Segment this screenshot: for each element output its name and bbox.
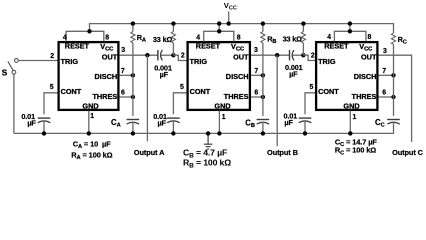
node U2 tie junction: [217, 29, 221, 33]
value label 0.01 uF (U2): [153, 112, 167, 128]
value label 33 kOhm (stage 2): [283, 34, 303, 43]
svg-text:3: 3: [383, 48, 387, 55]
value label CB = 4.7 uF: [183, 148, 227, 160]
svg-text:VCC: VCC: [231, 42, 244, 53]
wire U3 DISCH pin 7: [379, 74, 394, 76]
node U3 tie junction: [348, 29, 352, 33]
node U2 stub to rail: [217, 21, 221, 25]
value label 0.001 uF (coupling 2): [285, 63, 303, 78]
svg-text:TRIG: TRIG: [318, 57, 336, 66]
svg-text:µF: µF: [284, 118, 293, 127]
node U1 DISCH junction: [131, 73, 135, 77]
resistor RB: [261, 24, 265, 116]
svg-text:GND: GND: [214, 102, 230, 111]
svg-text:CONT: CONT: [318, 87, 339, 96]
U1 pin 7 label: [121, 68, 125, 75]
U2 label DISCH: [226, 72, 249, 81]
resistor 33k stage 1: [171, 24, 175, 56]
wire U2 tie stub to VCC rail: [218, 23, 220, 31]
svg-text:2: 2: [50, 53, 54, 60]
svg-text:7: 7: [254, 68, 258, 75]
U1 label THRES: [92, 92, 117, 101]
svg-text:6: 6: [121, 90, 125, 97]
svg-text:CA: CA: [111, 118, 121, 129]
svg-text:5: 5: [50, 84, 54, 91]
wire U1 reset-vcc tie (pins 4-8): [66, 31, 104, 41]
wire VCC supply stub: [228, 11, 230, 23]
value label 33 kOhm (stage 1): [153, 35, 173, 44]
resistor RA: [131, 24, 135, 116]
node bypass cap 3 to ground: [303, 131, 307, 135]
svg-text:µF: µF: [27, 119, 36, 128]
node U1 GND junction: [87, 131, 91, 135]
U3 pin 1 label: [353, 114, 357, 121]
svg-text:µF: µF: [158, 119, 167, 128]
svg-text:7: 7: [121, 68, 125, 75]
svg-text:GND: GND: [343, 102, 359, 111]
U1 label OUT: [102, 53, 118, 62]
U2 pin 5 label: [180, 84, 184, 91]
svg-text:CB: CB: [245, 118, 255, 129]
U2 pin 8 label: [237, 34, 241, 41]
node ground symbol junction: [206, 131, 210, 135]
svg-text:THRES: THRES: [92, 92, 117, 101]
U1 pin 3 label: [121, 47, 125, 54]
svg-text:CONT: CONT: [61, 87, 82, 96]
U2 pin 4 label: [196, 34, 200, 41]
capacitor CA timing: [127, 120, 140, 134]
svg-text:RA: RA: [137, 33, 146, 44]
node CA to ground rail: [131, 131, 135, 135]
wire U1 DISCH pin 7: [120, 74, 133, 76]
svg-text:RESET: RESET: [65, 42, 90, 51]
wire U1 GND pin 1 to rail: [88, 111, 90, 134]
U1 label CONT: [61, 87, 82, 96]
svg-text:33 kΩ: 33 kΩ: [153, 35, 173, 44]
node U2 DISCH junction: [261, 73, 265, 77]
capacitor 0.01uF bypass (U1): [38, 118, 51, 133]
svg-text:6: 6: [382, 90, 386, 97]
svg-text:VCC: VCC: [359, 42, 372, 53]
node 33k stage2 to rail: [301, 21, 305, 25]
svg-text:CC: CC: [375, 118, 385, 129]
U3 label THRES: [352, 92, 377, 101]
value label 0.01 uF (U1): [21, 112, 36, 128]
svg-text:2: 2: [181, 53, 185, 60]
U2 pin 3 label: [254, 47, 258, 54]
wire U3 OUT pin 3 to output C: [379, 55, 412, 142]
U2 pin 2 label: [181, 53, 185, 60]
wire U2 THRES pin 6: [251, 96, 263, 98]
switch S: [8, 59, 18, 75]
U2 label VCC: [231, 42, 244, 53]
U2 label CONT: [190, 87, 211, 96]
U2 pin 6 label: [254, 90, 258, 97]
svg-text:THRES: THRES: [352, 92, 377, 101]
svg-text:RA = 100 kΩ: RA = 100 kΩ: [71, 150, 112, 161]
svg-text:VCC: VCC: [100, 42, 113, 53]
U1 pin 8 label: [105, 34, 109, 41]
node coupling 2 to TRIG of U3: [301, 53, 305, 57]
U3 label OUT: [361, 53, 377, 62]
timer IC U3 (555) box: [316, 42, 377, 110]
U3 pin 5 label: [310, 84, 314, 91]
svg-text:8: 8: [237, 34, 241, 41]
capacitor CA label: [111, 118, 121, 129]
wire U1 OUT pin 3: [120, 54, 158, 56]
value label CA = 10 uF: [73, 139, 111, 150]
label Output A: [134, 148, 165, 157]
wire U2 CONT pin 5 to bypass cap: [173, 93, 186, 114]
svg-text:DISCH: DISCH: [226, 72, 249, 81]
value label 0.001 uF (coupling 1): [154, 63, 172, 78]
node U3 stub to rail: [348, 21, 352, 25]
wire U2 GND pin 1 to rail: [218, 111, 220, 134]
resistor RC: [391, 23, 395, 116]
U2 pin 1 label: [222, 114, 226, 121]
resistor 33k stage 2: [301, 24, 305, 56]
wire switch to TRIG pin 2 of U1: [18, 60, 57, 62]
node coupling 1 to TRIG of U2: [171, 53, 175, 57]
wire U2 DISCH pin 7: [251, 74, 263, 76]
svg-text:33 kΩ: 33 kΩ: [283, 34, 303, 43]
U1 label DISCH: [94, 72, 117, 81]
wire U3 CONT pin 5 to bypass cap: [305, 93, 315, 114]
wire U3 reset-vcc tie (pins 4-8): [334, 31, 366, 41]
node bypass cap 1 to ground: [42, 131, 46, 135]
svg-text:THRES: THRES: [224, 92, 249, 101]
wire VCC top rail: [90, 23, 394, 25]
U3 label CONT: [318, 87, 339, 96]
U1 pin 2 label: [50, 53, 54, 60]
svg-text:6: 6: [254, 90, 258, 97]
svg-text:4: 4: [327, 34, 331, 41]
U3 pin 3 label: [383, 48, 387, 55]
svg-text:1: 1: [222, 114, 226, 121]
svg-text:OUT: OUT: [102, 53, 118, 62]
node bypass cap 2 to ground: [171, 131, 175, 135]
node RB to rail: [261, 21, 265, 25]
U1 pin 4 label: [63, 34, 67, 41]
timer IC U1 (555) box: [59, 42, 119, 110]
capacitor C2 coupling 0.001uF: [290, 50, 304, 60]
svg-text:OUT: OUT: [233, 53, 249, 62]
wire U2 reset-vcc tie (pins 4-8): [204, 31, 234, 41]
svg-text:CONT: CONT: [190, 87, 211, 96]
svg-text:2: 2: [311, 53, 315, 60]
value label RC = 100 kOhm: [335, 146, 376, 157]
U3 pin 4 label: [327, 34, 331, 41]
node output B tap: [275, 53, 279, 57]
U3 pin 6 label: [382, 90, 386, 97]
U1 pin 6 label: [121, 90, 125, 97]
label Output B: [267, 148, 298, 157]
U2 pin 7 label: [254, 68, 258, 75]
svg-text:CA = 10 µF: CA = 10 µF: [73, 139, 111, 150]
wire output B drop: [276, 55, 278, 146]
node output A tap: [145, 53, 149, 57]
svg-text:1: 1: [353, 114, 357, 121]
svg-text:RC: RC: [398, 35, 407, 46]
U3 label RESET: [324, 42, 349, 51]
U2 label TRIG: [190, 57, 208, 66]
svg-text:Output B: Output B: [267, 148, 298, 157]
node U3 GND junction: [348, 131, 352, 135]
wire U3 GND pin 1 to rail: [349, 111, 351, 134]
node 33k stage1 to rail: [171, 21, 175, 25]
svg-text:TRIG: TRIG: [61, 57, 79, 66]
wire U3 THRES pin 6: [379, 96, 394, 98]
svg-text:4: 4: [196, 34, 200, 41]
svg-text:S: S: [2, 69, 8, 78]
power VCC label: [224, 1, 237, 12]
svg-text:µF: µF: [289, 69, 298, 78]
svg-text:1: 1: [90, 113, 94, 120]
timer IC U2 (555) box: [188, 42, 250, 110]
svg-text:VCC: VCC: [224, 1, 237, 12]
svg-text:GND: GND: [82, 102, 98, 111]
resistor RB label: [267, 34, 276, 45]
wire U1 CONT pin 5 to bypass cap: [44, 93, 58, 114]
svg-text:4: 4: [63, 34, 67, 41]
wire U1 tie stub to VCC rail: [89, 23, 91, 31]
U1 label VCC: [100, 42, 113, 53]
label Output C: [392, 148, 424, 157]
node U3 DISCH junction: [391, 73, 395, 77]
svg-text:OUT: OUT: [361, 53, 377, 62]
wire coupling node to U3 TRIG pin 2: [303, 55, 315, 60]
U2 label THRES: [224, 92, 249, 101]
wire U1 THRES pin 6: [120, 96, 133, 98]
value label RA = 100 kOhm: [71, 150, 112, 161]
capacitor CC timing: [387, 120, 400, 134]
value label RB = 100 kOhm: [183, 158, 231, 170]
resistor RA label: [137, 33, 146, 44]
svg-text:8: 8: [368, 34, 372, 41]
U3 pin 7 label: [382, 68, 386, 75]
node U1 tie junction: [87, 29, 91, 33]
wire coupling node to U2 TRIG pin 2: [173, 55, 186, 60]
wire ground bottom rail: [14, 132, 394, 134]
U1 pin 1 label: [90, 113, 94, 120]
value label 0.01 uF (U3): [283, 112, 297, 128]
wire U2 OUT pin 3: [251, 54, 290, 56]
node U2 THRES junction: [261, 95, 265, 99]
svg-text:5: 5: [310, 84, 314, 91]
U2 label GND: [214, 102, 230, 111]
svg-text:8: 8: [105, 34, 109, 41]
svg-text:5: 5: [180, 84, 184, 91]
svg-text:DISCH: DISCH: [94, 72, 117, 81]
U3 label VCC: [359, 42, 372, 53]
wire switch to ground rail: [13, 74, 15, 133]
capacitor 0.01uF bypass (U3): [299, 118, 312, 133]
wire output A drop: [146, 55, 148, 141]
capacitor CB timing: [257, 120, 270, 134]
ground symbol: [204, 133, 212, 149]
node VCC stub junction: [227, 21, 231, 25]
U3 label TRIG: [318, 57, 336, 66]
node U3 THRES junction: [391, 95, 395, 99]
U3 label GND: [343, 102, 359, 111]
capacitor 0.01uF bypass (U2): [167, 118, 180, 133]
U2 label OUT: [233, 53, 249, 62]
U1 label GND: [82, 102, 98, 111]
node RA to rail: [131, 21, 135, 25]
switch S label: [2, 69, 8, 78]
U1 pin 5 label: [50, 84, 54, 91]
wire U3 tie stub to VCC rail: [349, 23, 351, 31]
node U2 GND junction: [217, 131, 221, 135]
svg-text:RB: RB: [267, 34, 276, 45]
value label CC = 14.7 uF: [335, 137, 377, 148]
svg-text:TRIG: TRIG: [190, 57, 208, 66]
svg-text:Output C: Output C: [392, 148, 424, 157]
svg-text:3: 3: [254, 47, 258, 54]
svg-text:µF: µF: [160, 70, 169, 79]
svg-text:RESET: RESET: [196, 42, 221, 51]
capacitor CC label: [375, 118, 385, 129]
U3 label DISCH: [354, 72, 377, 81]
U1 label RESET: [65, 42, 90, 51]
node U1 THRES junction: [131, 95, 135, 99]
U3 pin 2 label: [311, 53, 315, 60]
U1 label TRIG: [61, 57, 79, 66]
U2 label RESET: [196, 42, 221, 51]
svg-text:RESET: RESET: [324, 42, 349, 51]
svg-text:3: 3: [121, 47, 125, 54]
svg-text:DISCH: DISCH: [354, 72, 377, 81]
resistor RC label: [398, 35, 407, 46]
capacitor C1 coupling 0.001uF: [158, 50, 174, 60]
node CB to ground rail: [261, 131, 265, 135]
capacitor CB label: [245, 118, 255, 129]
svg-text:Output A: Output A: [134, 148, 165, 157]
U3 pin 8 label: [368, 34, 372, 41]
svg-text:7: 7: [382, 68, 386, 75]
